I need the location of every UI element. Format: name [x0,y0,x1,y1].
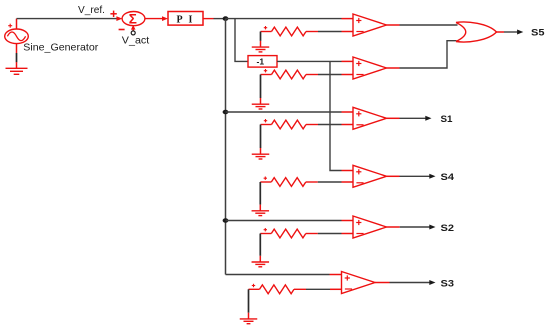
label S1 [441,114,454,125]
wire U8 output S3 [375,280,436,285]
svg-text:P I: P I [177,14,195,25]
label V_act [122,36,150,47]
wire R5 to ground [259,234,261,256]
comparator U6 [353,165,387,187]
wire bus to comparator U8 + input [226,274,342,276]
wire PI output to node A [203,18,226,20]
resistor R5 (carrier input) [260,228,318,238]
or-gate U9 [456,22,497,42]
svg-text:S3: S3 [441,278,455,289]
resistor R6 (carrier input) [249,284,307,294]
svg-text:V_act: V_act [122,36,150,47]
svg-text:S1: S1 [441,114,454,125]
comparator U7 [353,216,387,238]
wire node C to comparator U7 + input [226,220,354,222]
ground of R4 [252,205,269,216]
label V_ref. [78,5,105,16]
wire R4 to ground [259,182,261,205]
wire V1 to summer U1 [17,18,117,20]
svg-text:S5: S5 [531,28,545,39]
label S3 [441,278,455,289]
comparator U8 [342,272,376,294]
summer U1 [110,11,144,35]
wire U4 output to OR gate U9 [387,41,457,68]
ground of R2 [252,98,270,109]
wire node B to comparator U5 + input [226,111,354,113]
wire U5 output S1 [387,116,432,121]
wire R1 to ground [260,32,262,41]
svg-text:Σ: Σ [129,12,137,27]
node C (junction row 5) [223,218,229,223]
label S4 [441,172,455,183]
label S5 [531,28,545,39]
wire -1 output branch to comparator U6 + input [330,61,353,170]
comparator U5 [353,107,387,129]
wire -1 output to comparator U4 + input [277,60,353,62]
wire R6 to ground [248,289,250,312]
gain block -1 (U10) [248,56,277,68]
node B (junction row 3) [223,110,229,115]
wire summer to PI block [145,16,168,21]
ground G1 (sine source) [6,62,28,74]
wire node A to comparator U3 + input [226,18,354,20]
svg-text:S4: S4 [441,172,455,183]
ground of R6 [240,313,258,324]
PI controller block U2 [168,12,203,26]
comparator U3 [353,14,387,36]
label Sine_Generator [23,42,98,54]
svg-text:-1: -1 [257,57,265,67]
wire V1 to ground G1 [16,53,18,62]
resistor R3 (carrier input) [261,119,319,129]
wire R3 to comparator - input [318,124,353,126]
resistor R2 (carrier input) [261,69,319,79]
wire to gain block -1 input [235,19,248,62]
ground of R3 [252,148,270,159]
wire R2 to comparator - input [318,74,353,76]
comparator U4 [353,57,387,79]
wire R1 to comparator - input [318,31,353,33]
svg-text:S2: S2 [441,223,455,234]
wire R3 to ground [260,125,262,149]
wire U6 output S4 [387,174,436,179]
wire U7 output S2 [387,225,436,230]
svg-text:Sine_Generator: Sine_Generator [23,42,98,54]
wire R6 to comparator - input [306,288,342,290]
wire R2 to ground [260,75,262,99]
svg-text:V_ref.: V_ref. [78,5,105,16]
wire R4 to comparator - input [318,181,353,183]
label S2 [441,223,455,234]
vertical bus wire from node A [225,19,227,275]
ground of R1 [252,41,270,52]
voltage source V1 (sine generator) [5,19,29,53]
resistor R1 (carrier input) [261,26,319,36]
wire OR gate output S5 [497,30,524,35]
wire R5 to comparator - input [318,233,353,235]
ground of R5 [252,256,269,267]
wire U3 output to OR gate U9 [387,24,458,26]
node A (junction) [223,16,229,21]
resistor R4 (carrier input) [260,177,318,187]
